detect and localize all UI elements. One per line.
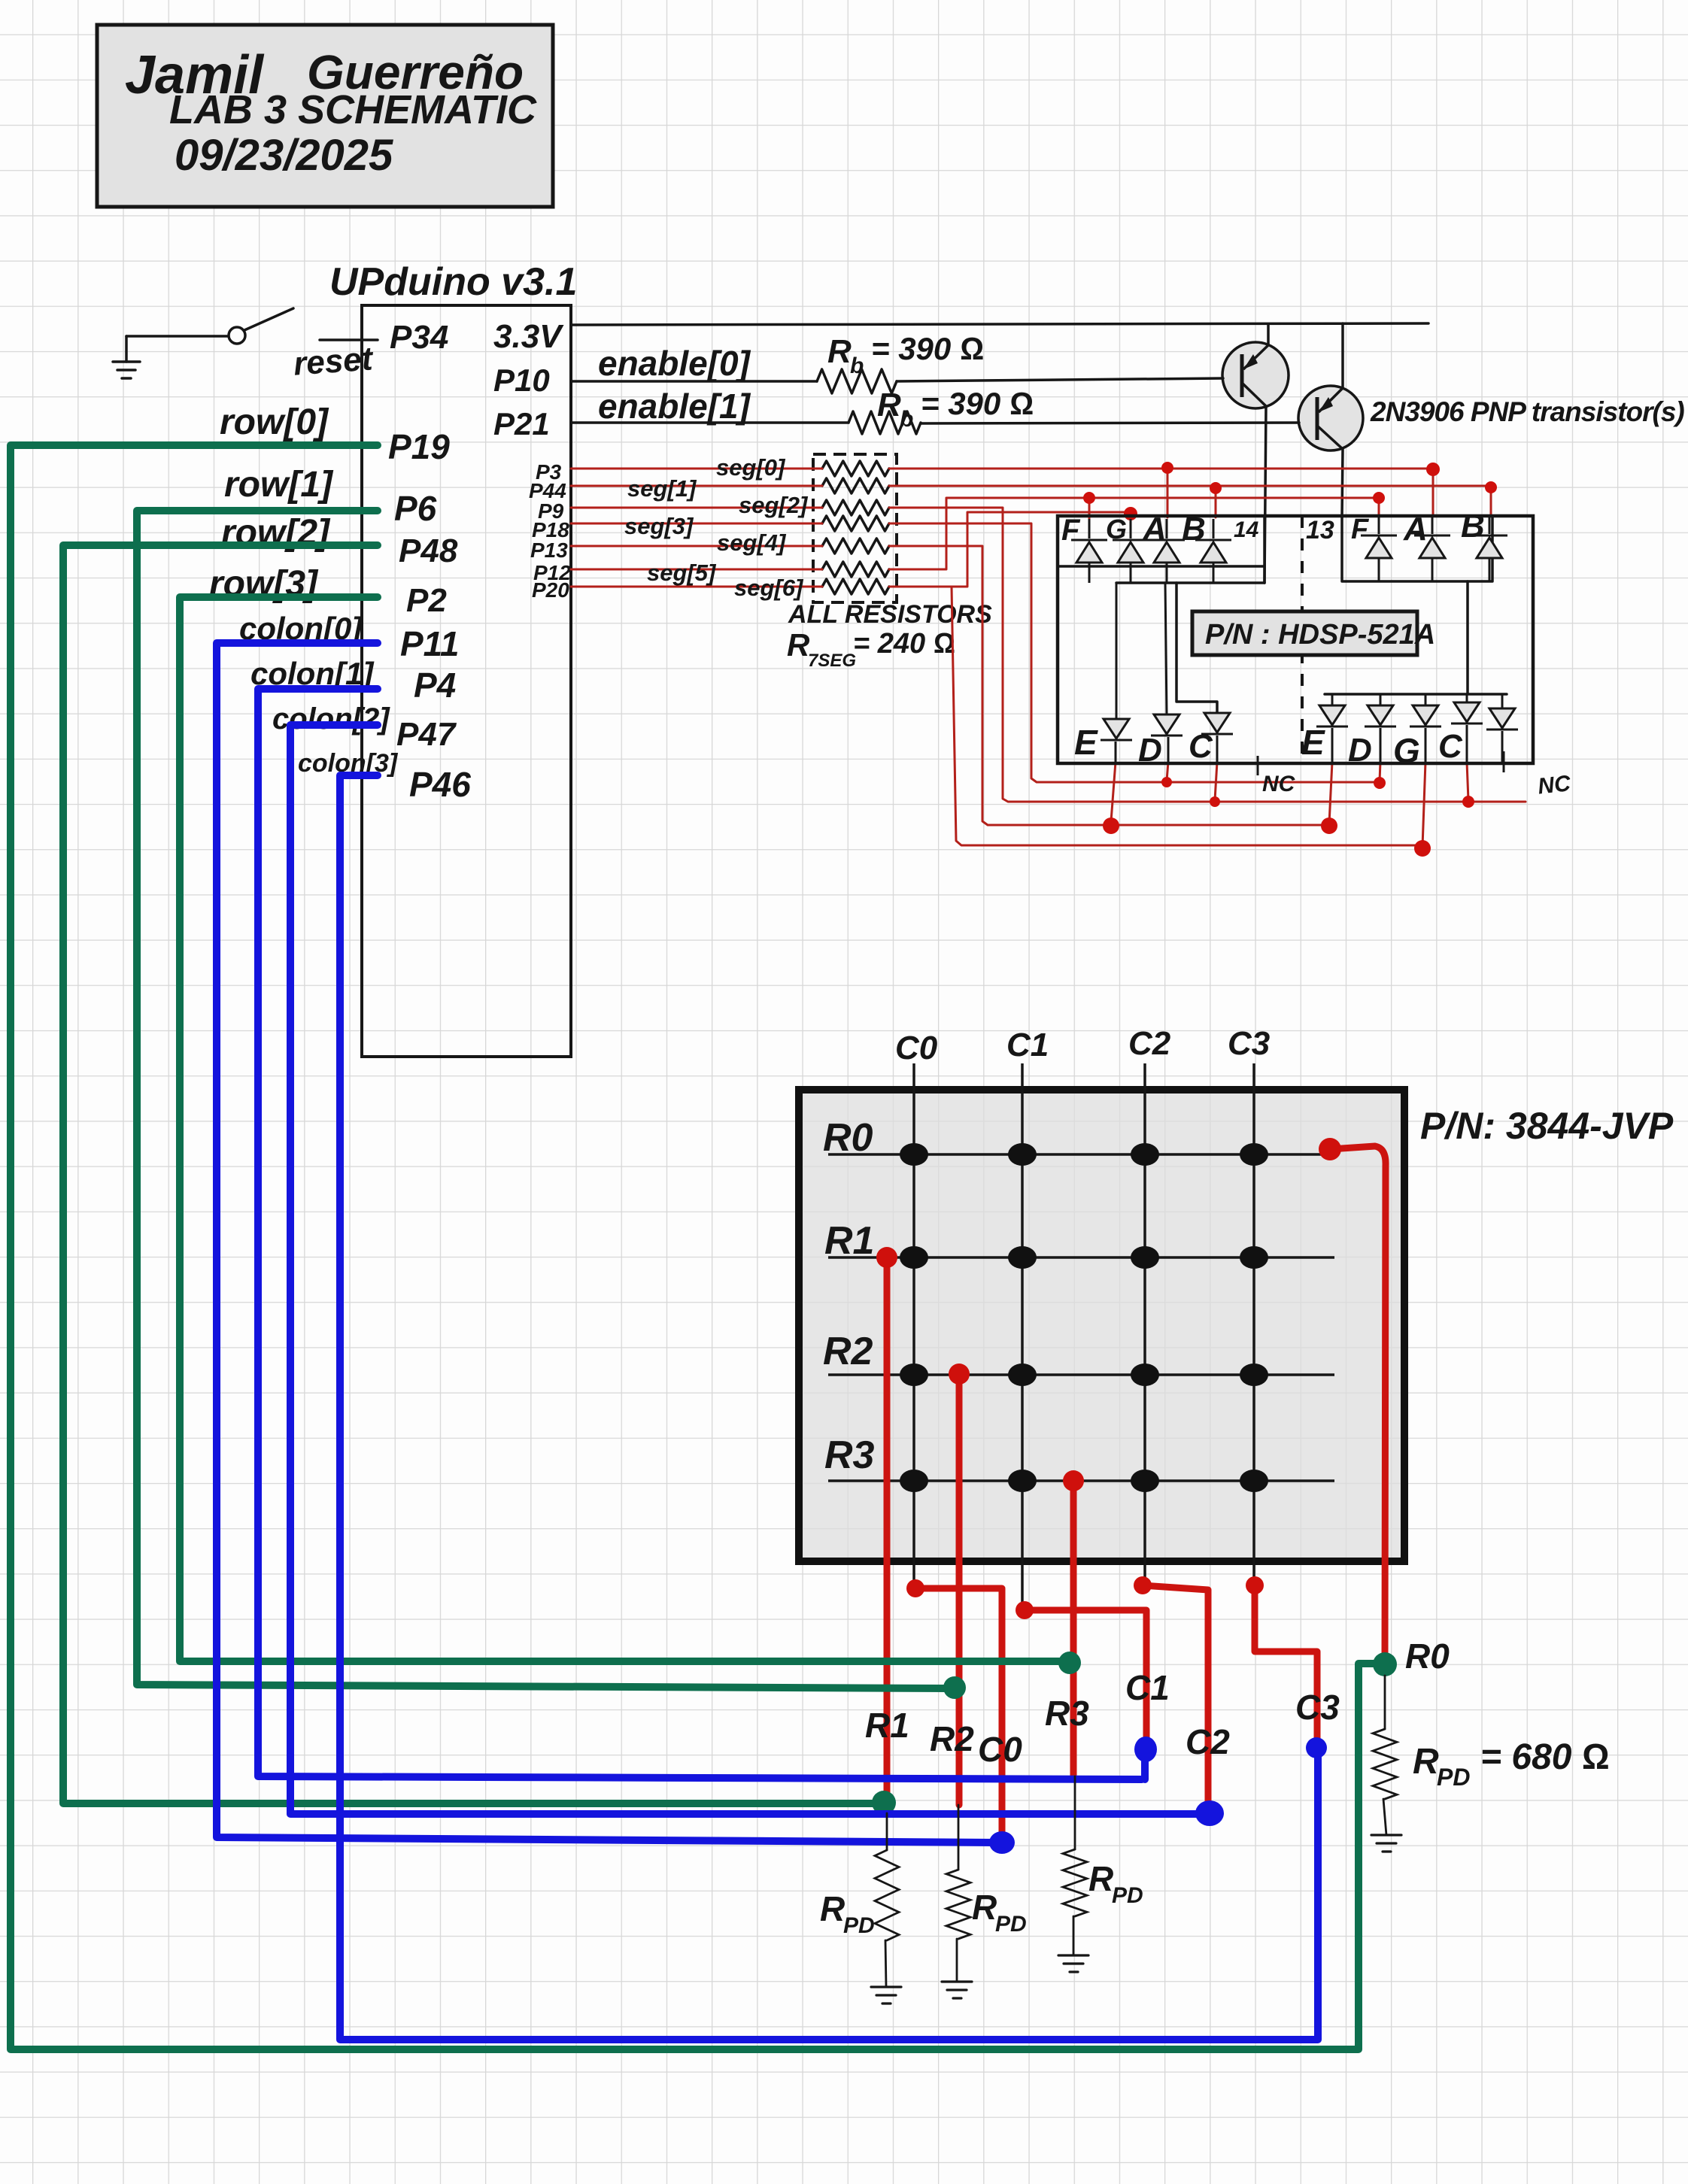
svg-text:LAB 3 SCHEMATIC: LAB 3 SCHEMATIC <box>169 87 537 132</box>
svg-text:P19: P19 <box>388 427 450 466</box>
wire seg[3] net: P18 to D cathode bus <box>571 523 1381 782</box>
svg-text:C: C <box>1189 728 1213 765</box>
svg-text:C2: C2 <box>1128 1025 1171 1062</box>
node C2 bottom <box>1134 1576 1152 1594</box>
wire C3 jog to colon[3] <box>1255 1585 1317 1746</box>
wire stub E left to seg[4] bus <box>1111 762 1116 821</box>
svg-text:R3: R3 <box>1045 1694 1089 1733</box>
svg-text:P6: P6 <box>394 489 437 528</box>
svg-text:b: b <box>900 407 913 432</box>
node seg[3]-D left <box>1161 777 1172 787</box>
diode segment F (right digit) <box>1361 516 1397 581</box>
svg-text:7SEG: 7SEG <box>808 651 856 671</box>
resistor RPD on R0 net <box>1384 1676 1386 1729</box>
diode segment C (right digit bottom) <box>1451 694 1483 762</box>
svg-text:P20: P20 <box>532 578 569 602</box>
wire keypad column C2 <box>1143 1063 1146 1582</box>
wire R1 tap down <box>884 1257 891 1803</box>
svg-text:R: R <box>787 627 810 663</box>
node keypad switch R2C2 <box>1131 1363 1159 1386</box>
node R0 tap <box>1319 1138 1341 1160</box>
wire resistor to Q1 base <box>897 378 1223 381</box>
svg-text:NC: NC <box>1537 771 1573 799</box>
node keypad switch R3C0 <box>900 1470 928 1492</box>
ground below RPD (R1) <box>871 1987 901 2004</box>
value label RPD (R2) <box>972 1888 1027 1937</box>
value label RPD = 680 ohm <box>1413 1737 1610 1791</box>
wire stub seg[6] to G (left digit) <box>1130 512 1132 526</box>
value label R7SEG = 240 ohm <box>787 627 955 671</box>
svg-text:A: A <box>1403 511 1428 548</box>
value label RPD (R1) <box>820 1889 875 1938</box>
node keypad switch R3C1 <box>1008 1470 1037 1492</box>
svg-text:seg[2]: seg[2] <box>739 492 809 518</box>
resistor R7SEG for seg[6] <box>822 579 889 594</box>
svg-text:R2: R2 <box>930 1719 974 1758</box>
svg-text:C0: C0 <box>895 1030 938 1066</box>
wire C0 jog to colon[0] <box>915 1588 1002 1841</box>
svg-text:R: R <box>1088 1859 1113 1898</box>
node seg[1]-B left <box>1210 482 1222 494</box>
resistor R7SEG for seg[2] <box>822 500 889 515</box>
svg-text:13: 13 <box>1306 516 1334 544</box>
svg-text:row[1]: row[1] <box>224 465 334 505</box>
wire Q2 collector to display pin 13 <box>1342 450 1343 517</box>
svg-text:P13: P13 <box>530 538 568 562</box>
svg-text:R: R <box>877 387 901 423</box>
svg-text:P48: P48 <box>399 532 458 569</box>
svg-text:F: F <box>1351 514 1370 545</box>
svg-text:R: R <box>820 1889 845 1928</box>
node colon[0]-C0 <box>989 1831 1015 1854</box>
wire stub C left to seg[2] bus <box>1215 762 1217 800</box>
svg-text:PD: PD <box>1112 1883 1143 1908</box>
node keypad switch R1C1 <box>1008 1246 1037 1269</box>
wire seg[2] net: P9 to C cathode bus <box>571 508 1526 802</box>
left digit anode bus (to Q1) <box>1116 581 1264 584</box>
wire stub D left to seg[3] bus <box>1167 762 1168 781</box>
node keypad switch R2C1 <box>1008 1363 1037 1386</box>
svg-text:3.3V: 3.3V <box>493 318 564 355</box>
wire keypad column C0 <box>912 1063 915 1587</box>
node keypad switch R0C3 <box>1240 1143 1268 1166</box>
resistor RPD on R3 net <box>1074 1776 1076 1849</box>
wire row[0] P19 to keypad R0 <box>11 445 1378 2049</box>
svg-text:D: D <box>1138 732 1162 769</box>
wire ground to switch <box>126 335 228 338</box>
ground below RPD (R0) <box>1371 1835 1401 1852</box>
wire keypad column C3 <box>1252 1063 1255 1582</box>
left digit top sub-box <box>1058 516 1264 583</box>
resistor RPD on R2 net <box>958 1805 960 1870</box>
wire stub D right to seg[3] bus <box>1380 762 1380 781</box>
node seg[5]-F right <box>1373 492 1385 504</box>
svg-text:UPduino v3.1: UPduino v3.1 <box>329 260 577 304</box>
node row[2]-R1 <box>872 1791 896 1815</box>
wire stub seg[0] to A (left digit) <box>1167 469 1169 517</box>
resistor Rb (enable[1]) 390 ohm <box>849 411 921 434</box>
ground at reset switch <box>113 336 140 378</box>
svg-text:seg[1]: seg[1] <box>627 475 697 502</box>
wire C1 jog to colon[1] <box>1025 1610 1146 1746</box>
wire Q1 collector to display pin 14 bus <box>1264 407 1266 583</box>
resistor R7SEG for seg[5] <box>822 562 889 577</box>
svg-text:P2: P2 <box>406 582 447 619</box>
svg-text:seg[4]: seg[4] <box>717 529 787 556</box>
svg-text:row[0]: row[0] <box>220 402 329 442</box>
svg-text:PD: PD <box>1437 1764 1470 1791</box>
wire stub C right to seg[2] bus <box>1467 762 1468 800</box>
diode segment D (left digit) <box>1151 714 1183 762</box>
node keypad switch R1C3 <box>1240 1246 1268 1269</box>
node keypad switch R0C1 <box>1008 1143 1037 1166</box>
svg-text:P10: P10 <box>493 362 550 398</box>
wire row[3] P2 to keypad (R3 junction) <box>180 597 1064 1661</box>
wire C left feed (jog) <box>1176 583 1217 713</box>
diode segment E (right digit bottom) <box>1316 694 1348 762</box>
svg-text:PD: PD <box>843 1913 875 1938</box>
wire colon[1] P4 to keypad C1 <box>258 689 1145 1779</box>
wire 3.3V to Q1 emitter <box>1267 324 1270 344</box>
wire colon[0] P11 to keypad C0 <box>217 643 994 1843</box>
wire keypad row R3 <box>828 1479 1334 1482</box>
node keypad switch R0C0 <box>900 1143 928 1166</box>
wire stub seg[0] to A (right digit) <box>1432 470 1434 516</box>
svg-text:PD: PD <box>995 1912 1027 1937</box>
node row[3]-R3 <box>1058 1652 1081 1674</box>
svg-text:seg[3]: seg[3] <box>624 513 694 539</box>
node seg[2]-C left <box>1210 796 1220 807</box>
wire seg[4] net: P13 to E cathode bus <box>571 546 1331 825</box>
node seg[4]-E right <box>1321 817 1337 834</box>
node seg[6]-G right <box>1414 840 1431 857</box>
svg-text:R2: R2 <box>823 1330 873 1373</box>
node seg[0]-A right <box>1426 463 1440 476</box>
node keypad switch R1C0 <box>900 1246 928 1269</box>
svg-text:09/23/2025: 09/23/2025 <box>175 131 393 180</box>
svg-text:seg[0]: seg[0] <box>716 454 786 481</box>
svg-text:enable[1]: enable[1] <box>598 387 751 426</box>
svg-text:= 390 Ω: = 390 Ω <box>871 331 984 366</box>
svg-text:R3: R3 <box>824 1433 875 1477</box>
pin NC left <box>1258 756 1296 796</box>
svg-text:B: B <box>1461 508 1485 544</box>
diode segment B (left digit) <box>1195 519 1231 583</box>
node keypad switch R3C3 <box>1240 1470 1268 1492</box>
node seg[1]-B right <box>1485 481 1497 493</box>
wire colon[3] P46 to keypad C3 <box>340 775 1318 2040</box>
wire stub G right to seg[6] bus <box>1422 762 1425 847</box>
node R1 tap <box>876 1247 897 1268</box>
svg-text:C3: C3 <box>1228 1025 1270 1062</box>
keypad 3844-JVP outline <box>799 1090 1404 1561</box>
wire resistor to Q2 base <box>921 423 1299 423</box>
wire enable[1] from P21 <box>571 421 849 424</box>
svg-text:C1: C1 <box>1006 1027 1049 1063</box>
svg-text:= 390 Ω: = 390 Ω <box>921 386 1034 421</box>
svg-text:b: b <box>850 353 864 378</box>
ground below RPD (R2) <box>942 1982 972 1998</box>
node colon[2]-C2 <box>1195 1800 1224 1826</box>
node R2 tap <box>949 1363 970 1385</box>
diode segment E (left digit) <box>1101 719 1132 762</box>
wire keypad row R2 <box>828 1373 1334 1376</box>
resistor RPD on R1 net <box>886 1813 888 1850</box>
svg-text:seg[5]: seg[5] <box>647 560 717 586</box>
node seg[3]-D right <box>1374 777 1386 789</box>
svg-text:C0: C0 <box>978 1730 1022 1769</box>
svg-text:R: R <box>972 1888 997 1927</box>
svg-text:P/N : HDSP-521A: P/N : HDSP-521A <box>1205 619 1435 651</box>
wire stub seg[1] to B (right digit) <box>1490 487 1492 516</box>
diode segment F (left digit) <box>1071 519 1107 583</box>
wire D left feed <box>1165 583 1167 714</box>
dashed digit divider <box>1301 516 1304 763</box>
diode segment B (right digit) <box>1471 516 1507 581</box>
svg-text:P/N: 3844-JVP: P/N: 3844-JVP <box>1420 1105 1674 1147</box>
node row[0]-R0 <box>1373 1652 1397 1676</box>
svg-text:= 680 Ω: = 680 Ω <box>1480 1737 1610 1777</box>
wire keypad column C1 <box>1021 1063 1024 1608</box>
svg-text:reset: reset <box>292 340 375 382</box>
node C3 bottom <box>1246 1576 1264 1594</box>
svg-text:NC: NC <box>1262 772 1296 796</box>
svg-text:14: 14 <box>1234 517 1259 542</box>
svg-text:R1: R1 <box>865 1706 909 1745</box>
title block <box>97 25 553 207</box>
wire seg[0] net: P3 to A anodes <box>571 468 1437 470</box>
resistor R7SEG for seg[1] <box>822 478 889 493</box>
wire right digit cathode bus <box>1325 581 1507 694</box>
node keypad switch R0C2 <box>1131 1143 1159 1166</box>
diode segment G (right digit bottom) <box>1410 694 1441 762</box>
node C0 bottom <box>906 1579 924 1597</box>
svg-text:P46: P46 <box>409 765 471 804</box>
svg-text:B: B <box>1182 511 1206 548</box>
wire 3.3V rail <box>571 323 1428 325</box>
svg-text:C3: C3 <box>1295 1688 1340 1727</box>
svg-text:G: G <box>1393 731 1420 770</box>
wire colon[2] P47 to keypad C2 <box>290 725 1202 1814</box>
wire R2 tap down <box>956 1374 963 1805</box>
svg-text:R: R <box>827 333 852 370</box>
diode segment A (left digit) <box>1149 519 1185 583</box>
wire stub E right to seg[4] bus <box>1329 762 1332 824</box>
wire seg[5] net: P12 to F anodes <box>571 498 1383 569</box>
node keypad switch R2C3 <box>1240 1363 1268 1386</box>
wire stub seg[5] to F (right digit) <box>1378 498 1380 516</box>
diode segment C (left digit) <box>1201 713 1233 762</box>
svg-text:R: R <box>1413 1742 1439 1782</box>
wire row[2] P48 to keypad (R1 junction) <box>63 545 879 1803</box>
wire keypad row R0 <box>828 1153 1334 1156</box>
node colon[1]-C1 <box>1134 1737 1157 1762</box>
svg-text:P21: P21 <box>493 406 550 441</box>
value label Rb = 390 ohm <box>827 331 984 378</box>
ground below RPD (R3) <box>1058 1955 1088 1972</box>
resistor R7SEG for seg[3] <box>822 516 889 531</box>
value label Rb = 390 ohm (second) <box>877 386 1034 432</box>
wire 3.3V to Q2 emitter <box>1341 323 1344 387</box>
svg-text:C1: C1 <box>1125 1668 1170 1707</box>
diode segment G (left digit) <box>1113 519 1149 583</box>
svg-text:enable[0]: enable[0] <box>598 344 751 383</box>
7-seg display U2 HDSP-521A outline <box>1058 516 1533 763</box>
wire seg[1] net: P44 to B anodes <box>571 485 1492 487</box>
wire seg[6] net: P20 to G pins <box>571 512 1424 845</box>
node seg[2]-C right <box>1462 796 1474 808</box>
node seg[4]-E left <box>1103 817 1119 834</box>
node seg[0]-A left <box>1161 462 1173 474</box>
node row[1]-R2 <box>943 1676 966 1699</box>
wire R0 tap to pulldown <box>1330 1146 1386 1664</box>
node keypad switch R2C0 <box>900 1363 928 1386</box>
wire C2 jog to colon[2] <box>1143 1585 1208 1811</box>
transistor Q1 2N3906 <box>1222 342 1289 408</box>
svg-text:R1: R1 <box>824 1219 874 1263</box>
svg-text:R0: R0 <box>823 1116 873 1160</box>
svg-text:D: D <box>1348 732 1372 769</box>
svg-text:seg[6]: seg[6] <box>734 575 804 601</box>
resistor bank dashed box (7-seg series resistors) <box>813 454 897 602</box>
node keypad switch R3C2 <box>1131 1470 1159 1492</box>
right digit top sub-box <box>1342 516 1492 581</box>
svg-text:E: E <box>1301 723 1325 762</box>
wire E left feed <box>1116 583 1118 719</box>
svg-text:P4: P4 <box>414 666 456 705</box>
value label RPD (R3) <box>1088 1859 1143 1908</box>
resistor R7SEG for seg[4] <box>822 538 889 554</box>
diode segment NC2 (right digit bottom) <box>1486 694 1518 762</box>
node keypad switch R1C2 <box>1131 1246 1159 1269</box>
node R3 tap <box>1063 1470 1084 1491</box>
svg-text:R0: R0 <box>1405 1636 1450 1676</box>
wire stub seg[5] to F (left digit) <box>1088 498 1091 519</box>
svg-text:ALL RESISTORS: ALL RESISTORS <box>788 600 992 629</box>
node colon[3]-C3 <box>1306 1737 1327 1758</box>
part number box <box>1192 611 1435 655</box>
wire enable[0] from P10 <box>571 380 817 383</box>
wire keypad row R1 <box>828 1256 1334 1259</box>
node seg[5]-F left <box>1083 492 1095 504</box>
node C1 bottom <box>1016 1601 1034 1619</box>
diode segment D (right digit bottom) <box>1365 694 1396 762</box>
switch SW1 (reset pushbutton) <box>229 308 293 344</box>
op-amp U1 UPduino v3.1 FPGA board outline <box>329 260 577 1057</box>
wire switch to P34 <box>320 338 378 341</box>
wire R3 tap down <box>1070 1481 1077 1776</box>
wire row[1] P6 to keypad (R2 column junction) <box>137 511 949 1688</box>
resistor Rb (enable[0]) 390 ohm <box>817 369 897 393</box>
svg-text:C2: C2 <box>1186 1722 1230 1761</box>
svg-text:G: G <box>1106 514 1127 544</box>
svg-text:P34: P34 <box>390 319 448 356</box>
svg-text:2N3906 PNP transistor(s): 2N3906 PNP transistor(s) <box>1370 396 1684 427</box>
pin NC right <box>1504 751 1573 799</box>
diode segment A (right digit) <box>1414 516 1450 581</box>
resistor R7SEG for seg[0] <box>822 461 889 476</box>
svg-text:A: A <box>1142 511 1167 548</box>
svg-text:P47: P47 <box>396 716 457 753</box>
svg-text:P11: P11 <box>400 624 459 663</box>
svg-text:= 240 Ω: = 240 Ω <box>853 628 955 660</box>
svg-text:F: F <box>1061 514 1081 547</box>
svg-text:E: E <box>1074 723 1098 762</box>
node seg[6]-G left <box>1124 507 1137 520</box>
wire stub seg[1] to B (left digit) <box>1215 487 1217 517</box>
transistor Q2 2N3906 <box>1298 386 1363 450</box>
svg-text:C: C <box>1438 728 1463 765</box>
